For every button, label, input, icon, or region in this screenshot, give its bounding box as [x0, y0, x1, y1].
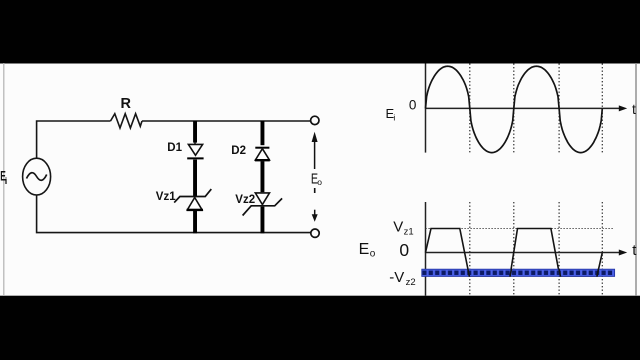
Ei axis horizontal with arrow [426, 107, 623, 109]
svg-text:t: t [632, 101, 636, 117]
svg-text:0: 0 [409, 97, 417, 112]
svg-text:z2: z2 [406, 277, 416, 288]
clipped output waveform [426, 229, 603, 277]
wire: left rail top segment [37, 121, 111, 159]
waveform edges crossing the blue marker [468, 269, 599, 277]
svg-text:0: 0 [399, 240, 409, 260]
svg-text:i: i [393, 113, 395, 123]
wire: Vz1 to bottom rail [193, 211, 197, 234]
output terminal top [311, 116, 319, 124]
Eo down arrow [314, 210, 316, 215]
slide right border [635, 63, 637, 296]
Ei axis vertical [425, 64, 427, 153]
svg-text:V: V [393, 219, 403, 236]
Vz1 dotted level line [426, 228, 614, 230]
svg-text:Vz2: Vz2 [235, 194, 255, 206]
svg-text:D1: D1 [167, 142, 182, 154]
svg-text:D2: D2 [231, 145, 246, 157]
svg-text:R: R [121, 96, 132, 112]
Eo up arrow [314, 141, 316, 170]
dashed guide lines (top plot) [470, 64, 603, 153]
wire: Vz2 to bottom rail [261, 207, 265, 234]
AC source E_i [23, 158, 51, 195]
bottom letterbox bar [0, 296, 640, 360]
diode D2 [255, 147, 269, 149]
svg-text:-V: -V [389, 269, 404, 286]
resistor R [111, 114, 143, 128]
svg-text:Vz1: Vz1 [156, 191, 176, 203]
Eo axis vertical [425, 202, 427, 296]
svg-text:o: o [317, 177, 322, 187]
wire: D1 to Vz1 [193, 160, 197, 197]
diode D1 [188, 144, 202, 155]
zener Vz2 [255, 193, 269, 205]
branch 1: wire from top rail [193, 121, 197, 143]
tick below Eo [314, 188, 316, 193]
svg-text:i: i [5, 176, 8, 186]
Eo axis horizontal with arrow [426, 252, 623, 254]
zener Vz1 [174, 189, 211, 203]
output terminal bottom [311, 229, 319, 237]
wire: D2 to Vz2 [261, 161, 265, 192]
sine wave Ei [426, 66, 603, 152]
svg-text:o: o [370, 248, 376, 259]
svg-text:E: E [359, 241, 370, 258]
branch 2: wire from top rail [261, 121, 265, 145]
wire: top rail to output terminal [142, 120, 310, 122]
slide left border [3, 63, 5, 296]
wire: left rail bottom segment [37, 195, 311, 233]
top letterbox bar [0, 0, 640, 64]
svg-text:z1: z1 [404, 226, 414, 237]
dashed guide lines (bottom plot) [470, 202, 603, 296]
